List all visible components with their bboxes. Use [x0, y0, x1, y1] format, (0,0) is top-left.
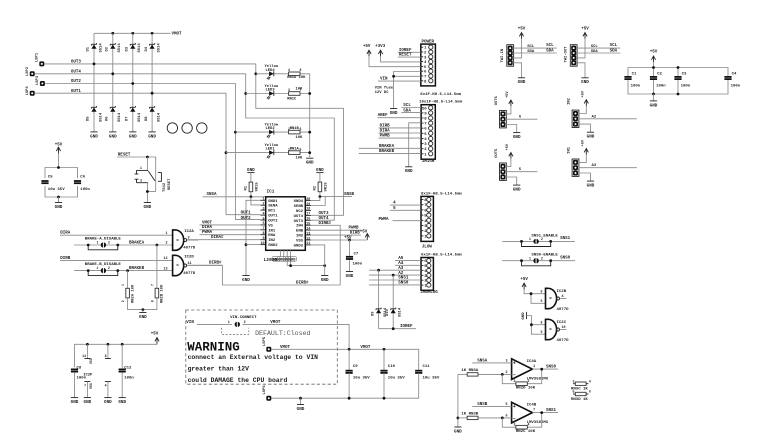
svg-text:RN3D 1K: RN3D 1K	[571, 398, 588, 402]
junction brake-b right	[116, 269, 119, 272]
svg-text:VMOT: VMOT	[280, 346, 291, 350]
capacitor C2 100n	[650, 77, 657, 79]
ground POWER	[390, 109, 398, 116]
svg-text:4: 4	[562, 295, 564, 299]
svg-text:SS14: SS14	[138, 43, 142, 53]
capacitor C8 100n	[71, 369, 78, 371]
svg-text:RESET: RESET	[168, 178, 172, 190]
svg-text:DIRA#: DIRA#	[211, 236, 224, 240]
supply pins IC4P LMV358	[107, 344, 109, 358]
ground IC2P	[84, 398, 92, 405]
wire D10 column	[392, 275, 394, 329]
svg-text:DIRA: DIRA	[380, 130, 391, 134]
svg-text:SCL: SCL	[527, 45, 535, 49]
svg-text:12: 12	[163, 257, 167, 261]
junction OUT1 at D4	[151, 92, 154, 95]
svg-text:VDD: VDD	[89, 358, 93, 364]
power +5V arrow IN1	[584, 149, 588, 155]
LED LED4 Yellow	[267, 71, 274, 80]
wire R2 bottom	[319, 192, 321, 197]
LED LED1 Yellow	[267, 150, 274, 159]
wire IN2 pin3 to ground	[579, 124, 591, 132]
diode D4 SS14	[150, 43, 155, 49]
capacitor C7 100n	[346, 257, 353, 259]
junction pin11 link	[323, 264, 326, 267]
resistor RN1B 10K	[289, 130, 300, 134]
wire switch pins 2-4 loop	[147, 191, 155, 193]
svg-text:GND: GND	[118, 400, 126, 405]
svg-text:−: −	[513, 372, 516, 378]
junction brake-a right	[116, 244, 119, 247]
svg-text:OUT4: OUT4	[294, 215, 304, 219]
svg-text:JLOW: JLOW	[422, 246, 433, 250]
gate IC2D 4077	[173, 255, 187, 275]
wire +5V to TWI-OUT pin3	[577, 39, 585, 58]
svg-text:PWMA: PWMA	[202, 231, 213, 235]
svg-text:8: 8	[105, 354, 107, 358]
wire SENA pin2 riser	[251, 197, 261, 205]
svg-text:R2: R2	[313, 185, 317, 190]
svg-text:TS42: TS42	[163, 182, 167, 192]
svg-text:LSP4: LSP4	[26, 86, 30, 96]
svg-text:11: 11	[306, 242, 310, 246]
svg-text:GND: GND	[513, 188, 521, 193]
wire net DIRA to IN1 pin7	[200, 229, 261, 231]
svg-text:3: 3	[288, 88, 290, 92]
svg-text:D5: D5	[87, 116, 91, 121]
diode D5 SS14	[91, 106, 96, 112]
capacitor C6 100n	[74, 181, 81, 183]
svg-text:3: 3	[140, 178, 142, 182]
ground C7	[346, 272, 354, 279]
wire SENB pin19 riser	[311, 197, 325, 206]
wire IN2 middle pin net	[579, 118, 637, 120]
svg-text:JHIGH: JHIGH	[422, 160, 435, 164]
ground below D6	[109, 132, 117, 139]
svg-text:RN1C: RN1C	[287, 97, 297, 101]
svg-text:ENA: ENA	[268, 234, 276, 238]
wire IC4B output SNS1	[532, 412, 558, 414]
connector IN2 3pin	[572, 110, 579, 127]
svg-text:12: 12	[306, 237, 310, 241]
wire TWI-OUT SCL	[577, 47, 621, 49]
junction VMOT D4	[151, 32, 154, 35]
wire SNSB to IC4B + input	[472, 405, 511, 407]
junction IC4A feedback	[501, 373, 504, 376]
resistor RN1A 10K	[289, 151, 300, 155]
svg-text:TWI-OUT: TWI-OUT	[565, 46, 569, 63]
capacitor C10 10u 35V	[380, 371, 387, 373]
svg-text:+5V: +5V	[520, 278, 528, 282]
jumper state dashed bracket	[222, 328, 249, 335]
connector OUT6 3pin	[500, 111, 507, 128]
capacitor C5 10u 35V	[41, 181, 48, 183]
svg-text:C7: C7	[354, 253, 359, 257]
wire SDA to JHIGH pin9	[401, 112, 421, 114]
junction VMOT D3	[131, 32, 134, 35]
svg-text:RN2D 10K: RN2D 10K	[516, 387, 536, 391]
svg-text:C3: C3	[682, 73, 687, 77]
junction BRAKEB to RN2A	[126, 269, 129, 272]
junction GND2 pin10	[245, 243, 248, 246]
resistor RN3B 1K	[467, 416, 478, 419]
svg-text:D2: D2	[106, 46, 110, 51]
svg-text:100n: 100n	[80, 188, 90, 192]
wire RN3B input	[458, 417, 467, 419]
svg-text:LSP6: LSP6	[263, 385, 267, 395]
svg-text:LSP1: LSP1	[36, 52, 40, 62]
svg-text:7: 7	[151, 284, 155, 286]
wire net A2 to pin3	[369, 274, 421, 276]
svg-text:4: 4	[288, 68, 290, 72]
wire SCL to JHIGH pin10	[401, 107, 421, 109]
svg-text:VIN: VIN	[186, 321, 194, 325]
svg-text:SNSB: SNSB	[477, 403, 488, 407]
svg-text:1K RN3A: 1K RN3A	[461, 369, 478, 373]
junction IC4A output	[540, 368, 543, 371]
wire SNSA to IC4A + input	[472, 362, 511, 364]
wire diode column D3/D7	[132, 33, 134, 132]
wire net DIRA to IC2A pin1	[60, 234, 173, 236]
wire net SNSA	[203, 196, 266, 198]
svg-text:GND: GND	[518, 80, 526, 85]
wire diode column D1/D5	[93, 33, 95, 132]
svg-text:+5V: +5V	[360, 231, 368, 235]
svg-text:BRAKEB: BRAKEB	[129, 267, 145, 271]
wire +5V to C5/C6 rail	[58, 154, 60, 168]
junction VMOT D2	[111, 32, 114, 35]
svg-text:100n: 100n	[353, 263, 363, 267]
wire IC2C output pin10	[560, 329, 567, 331]
svg-text:IN3: IN3	[296, 235, 304, 239]
svg-text:+5V: +5V	[363, 45, 371, 49]
wire TWI-OUT SDA	[577, 52, 621, 54]
svg-text:15: 15	[306, 223, 310, 227]
svg-text:SDA: SDA	[527, 50, 535, 54]
svg-text:LED2: LED2	[266, 127, 276, 131]
svg-text:D4: D4	[145, 46, 149, 51]
svg-text:OUT3: OUT3	[294, 220, 304, 224]
power +5V arrow POWER	[367, 50, 371, 56]
wire R1 top	[250, 173, 252, 182]
svg-text:NC1: NC1	[268, 210, 276, 214]
op IC1 L298 body	[266, 197, 306, 251]
ground VMOT caps	[297, 405, 305, 412]
svg-text:DIRB#: DIRB#	[296, 282, 309, 286]
svg-text:GND: GND	[290, 257, 296, 261]
svg-text:A5: A5	[398, 257, 404, 261]
wire net 4 to JLOW pin7	[390, 204, 421, 206]
svg-text:IN4: IN4	[296, 225, 304, 229]
diode D3 SS14	[130, 43, 135, 49]
junction BRAKEA to RN2B	[156, 244, 159, 247]
wire C12 bottom	[121, 373, 123, 398]
mounting hole 1	[167, 123, 177, 133]
svg-text:OUT1: OUT1	[268, 215, 278, 219]
svg-text:3: 3	[573, 379, 575, 383]
svg-text:GND: GND	[306, 161, 314, 166]
svg-text:1: 1	[529, 256, 531, 260]
wire IC2B output pin4	[560, 298, 567, 300]
connector TWI-IN 4pin	[507, 45, 514, 66]
wire net DIRB IN3 pin13	[311, 234, 361, 236]
svg-text:1: 1	[529, 237, 531, 241]
ground TWI-IN	[518, 78, 526, 85]
svg-text:GND: GND	[321, 278, 329, 283]
wire OUT5 middle pin net	[506, 171, 538, 173]
power +5V arrow C1-C4	[651, 56, 655, 62]
LED LED3 Yellow	[267, 91, 274, 100]
wire IC1 tab/pin11 gnd link	[287, 265, 325, 267]
svg-text:RN1A: RN1A	[290, 148, 300, 152]
svg-text:OUT4: OUT4	[71, 71, 82, 75]
resistor RN2C 10K	[516, 425, 527, 429]
svg-text:10u 35V: 10u 35V	[423, 376, 440, 380]
junction OUT3 at D1	[93, 63, 96, 66]
svg-text:PWMA: PWMA	[379, 218, 390, 222]
LED LED2 Yellow	[267, 130, 274, 139]
svg-text:+: +	[513, 404, 516, 410]
svg-text:D10: D10	[386, 308, 390, 316]
op-amp IC4B LMV358IMX	[512, 402, 533, 423]
svg-text:4077D: 4077D	[183, 272, 196, 276]
svg-text:8: 8	[541, 320, 543, 324]
resistor RN2D 10K	[516, 382, 527, 386]
svg-text:VS: VS	[268, 224, 273, 228]
ground RN2A/RN2B	[139, 313, 147, 320]
svg-text:8: 8	[300, 68, 302, 72]
ground IN2	[587, 132, 595, 139]
resistor RN2A 10K	[126, 288, 130, 298]
svg-text:LED1: LED1	[266, 148, 276, 152]
junction IC4B feedback	[501, 417, 504, 420]
wire pin10	[246, 244, 260, 246]
junction brake-a left	[87, 244, 90, 247]
junction C3 top	[677, 66, 680, 69]
wire net OUT3	[45, 64, 344, 215]
svg-text:3: 3	[505, 360, 507, 364]
svg-text:+5V: +5V	[581, 27, 589, 31]
svg-text:OUT3: OUT3	[71, 61, 82, 65]
ground C1-C4	[650, 101, 658, 108]
wire RN2A/RN2B to ground	[128, 298, 157, 310]
wire C12 top	[121, 344, 123, 368]
svg-text:10K: 10K	[296, 157, 304, 161]
capacitor C1 100n	[624, 77, 631, 79]
svg-text:1: 1	[97, 241, 99, 245]
svg-text:C8: C8	[77, 366, 82, 370]
wire +3V3 to POWER pin4	[381, 57, 421, 62]
svg-text:IC4A: IC4A	[527, 360, 537, 364]
svg-text:IN1: IN1	[568, 146, 572, 154]
svg-text:SNSA: SNSA	[477, 360, 488, 364]
wire +5V to cap rail	[653, 62, 655, 67]
wire C5/C6 loop	[45, 168, 78, 179]
ground TWI-OUT	[581, 78, 589, 85]
svg-text:SCL: SCL	[610, 44, 618, 48]
svg-text:C12: C12	[124, 366, 132, 370]
svg-text:GND: GND	[109, 134, 117, 139]
svg-text:2: 2	[263, 203, 265, 207]
junction gnd drop	[299, 397, 302, 400]
svg-text:GND: GND	[247, 168, 255, 173]
wire brake-b bracket	[88, 271, 118, 276]
svg-text:SNSA: SNSA	[207, 193, 218, 197]
svg-text:IOREF: IOREF	[400, 325, 413, 329]
junction C10 top	[383, 348, 386, 351]
junction tab link	[289, 264, 292, 267]
svg-text:GND: GND	[587, 184, 595, 189]
ground above R1	[247, 168, 255, 173]
resistor R2 0R15	[318, 182, 322, 192]
svg-text:5: 5	[300, 147, 302, 151]
svg-text:6: 6	[263, 222, 265, 226]
wire AREF to JHIGH pin8	[378, 117, 422, 119]
wire IN1 middle pin net	[579, 167, 637, 169]
svg-text:8: 8	[151, 300, 155, 302]
svg-text:GND: GND	[346, 274, 354, 279]
wire OUT2 to IC1 pin5	[235, 219, 260, 221]
svg-text:A3: A3	[398, 267, 404, 271]
svg-text:GND: GND	[390, 111, 398, 116]
wire VMOT rail C9-C11	[272, 349, 419, 370]
svg-text:SENA: SENA	[268, 205, 278, 209]
svg-text:ENB: ENB	[296, 230, 304, 234]
ground OUT6	[513, 133, 521, 140]
svg-text:4: 4	[589, 379, 591, 383]
svg-text:GND4: GND4	[294, 200, 304, 204]
svg-text:PWMB: PWMB	[349, 227, 360, 231]
power +5V arrow OUT6	[509, 100, 513, 106]
wire IC4A output SNS0	[532, 368, 558, 370]
ground above R2	[316, 168, 324, 173]
wire C5/C6 to ground	[58, 197, 60, 203]
svg-text:8: 8	[263, 232, 265, 236]
svg-text:2: 2	[108, 241, 110, 245]
wire LED1 row	[226, 152, 310, 154]
wire net OUT1	[35, 93, 260, 215]
svg-text:AREF: AREF	[378, 114, 389, 118]
svg-text:GND: GND	[148, 134, 156, 139]
wire POWER pin7 gnd	[394, 75, 421, 77]
wire R1 bottom	[250, 192, 252, 197]
wire net DIRB to IC2D pin12	[60, 259, 173, 261]
junction C2 bottom	[652, 93, 655, 96]
svg-text:OUT5: OUT5	[495, 148, 499, 158]
svg-text:+5V: +5V	[650, 51, 658, 55]
power +5V arrow IC2B	[522, 283, 526, 289]
svg-text:19: 19	[306, 203, 310, 207]
svg-text:=: =	[176, 239, 179, 244]
svg-text:+5V: +5V	[506, 91, 510, 98]
svg-text:=: =	[176, 264, 179, 269]
wire cap rail bottom	[628, 80, 728, 94]
wire TWI-IN pin4 to ground	[513, 63, 521, 78]
svg-text:+3V3: +3V3	[375, 45, 386, 49]
svg-text:2: 2	[121, 300, 125, 302]
svg-text:LED4: LED4	[266, 69, 276, 73]
wire switch to ground	[146, 183, 148, 203]
svg-text:GND: GND	[650, 103, 658, 108]
wire gnd to IC2C inputs	[527, 316, 546, 335]
junction RN2 gnd	[142, 308, 145, 311]
wire gnd riser op-amps	[457, 374, 459, 427]
svg-text:GND: GND	[454, 429, 462, 434]
power +5V arrow TWI-OUT	[583, 33, 587, 39]
svg-text:GND: GND	[581, 80, 589, 85]
svg-text:LMV358IMX: LMV358IMX	[527, 421, 549, 425]
svg-text:1: 1	[528, 379, 530, 383]
ground JHIGH	[405, 167, 413, 174]
svg-text:7: 7	[533, 408, 535, 412]
wire net PWMB to JHIGH pin4	[379, 137, 422, 139]
wire net DIRA# to IN2 pin9	[187, 239, 260, 241]
diode D2 SS14	[110, 43, 115, 49]
svg-text:14: 14	[82, 354, 86, 358]
svg-text:D3: D3	[126, 46, 130, 51]
wire C9 column bottom	[348, 373, 350, 398]
pad LSP6	[266, 396, 271, 401]
wire VMOT cap bottom rail	[272, 373, 419, 398]
wire diode column D4/D8	[151, 33, 153, 132]
svg-text:greater than 12V: greater than 12V	[188, 366, 250, 373]
svg-text:3: 3	[514, 423, 516, 427]
svg-text:GND: GND	[129, 134, 137, 139]
svg-text:D1: D1	[87, 46, 91, 51]
junction switch gnd	[146, 190, 149, 193]
svg-text:IC1: IC1	[267, 189, 275, 194]
svg-text:IC2D: IC2D	[184, 255, 194, 259]
svg-text:BRAKE-A_DISABLE: BRAKE-A_DISABLE	[85, 238, 122, 242]
svg-text:100n: 100n	[681, 85, 691, 89]
svg-text:2: 2	[541, 256, 543, 260]
capacitor C9 10u 35V	[346, 371, 353, 373]
switch T1 TS42 RESET	[135, 166, 172, 192]
svg-text:OUT3: OUT3	[319, 212, 330, 216]
power +5V arrow IN2	[584, 100, 588, 106]
wire C2 column	[653, 68, 655, 77]
svg-text:SDA: SDA	[610, 49, 618, 53]
wire +5V to TWI-IN pin3	[513, 39, 521, 58]
warning box border	[186, 310, 337, 384]
svg-text:11: 11	[188, 262, 192, 266]
svg-text:GND: GND	[297, 407, 305, 412]
svg-text:C10: C10	[388, 365, 396, 369]
wire IC4A feedback loop	[502, 374, 516, 383]
wire IC2A output pin3	[187, 239, 198, 241]
svg-text:LED3: LED3	[266, 89, 276, 93]
wire net A4 to pin5	[395, 264, 421, 266]
svg-text:7: 7	[300, 88, 302, 92]
diode D8 SS14	[150, 106, 155, 112]
svg-text:14: 14	[306, 227, 310, 231]
junction OUT2 at D3	[131, 82, 134, 85]
svg-text:IC2A: IC2A	[184, 230, 194, 234]
svg-text:4077D: 4077D	[183, 246, 196, 250]
svg-text:BRAKEA: BRAKEA	[129, 242, 145, 246]
wire C7 top	[349, 240, 351, 256]
svg-text:100n: 100n	[631, 85, 641, 89]
wire POWER pin6 gnd	[394, 72, 421, 109]
wire OUT6 middle pin net	[506, 118, 538, 120]
svg-text:RESET: RESET	[399, 54, 412, 58]
svg-text:OUT2: OUT2	[71, 80, 82, 84]
svg-text:SNS1: SNS1	[398, 277, 409, 281]
svg-text:could DAMAGE the CPU board: could DAMAGE the CPU board	[188, 377, 288, 384]
svg-text:IN2: IN2	[268, 239, 276, 243]
diode D10 SS14	[391, 308, 396, 314]
wire brake-a bracket	[88, 245, 118, 250]
